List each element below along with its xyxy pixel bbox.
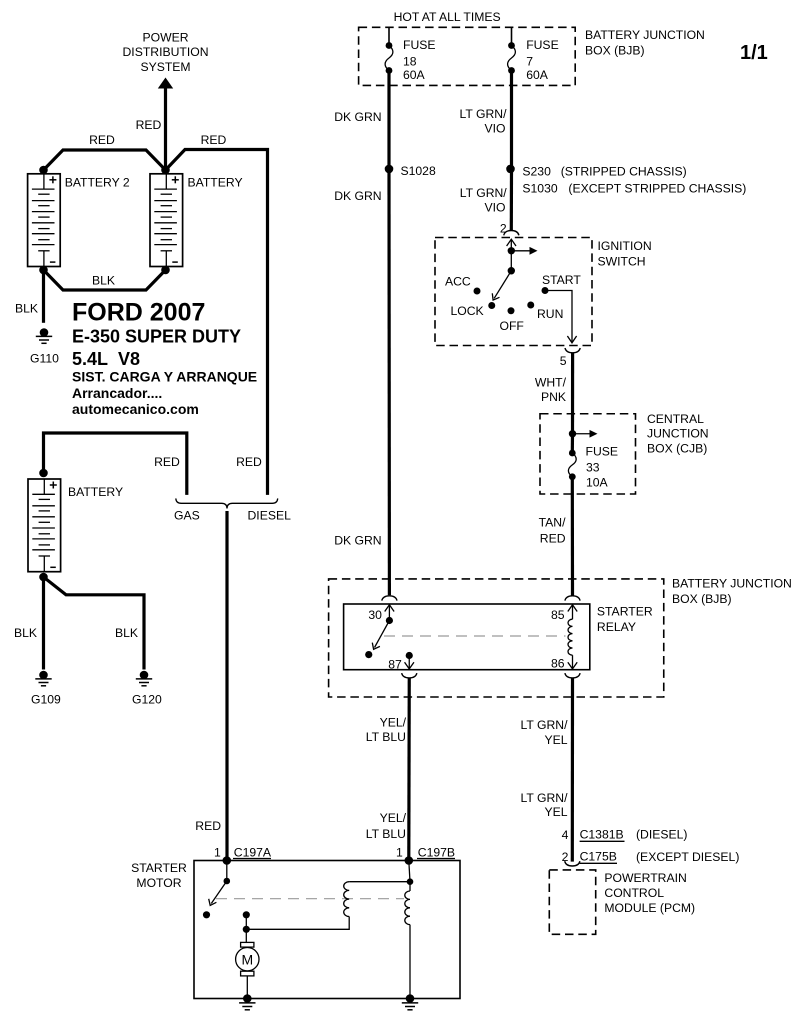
ignition input arrow pin 2 (507, 239, 516, 251)
battery B2 (28, 174, 61, 267)
battery B3 (28, 479, 61, 572)
svg-text:RED: RED (195, 819, 221, 833)
svg-text:BLK: BLK (115, 626, 138, 640)
connector C175B pin 2 (562, 849, 740, 864)
wire BLK battery 2 to ground G110 (42, 270, 45, 323)
svg-text:START: START (542, 273, 581, 287)
ignition wiper arm (492, 251, 515, 300)
svg-text:1: 1 (214, 846, 221, 860)
svg-text:SWITCH: SWITCH (598, 254, 646, 268)
svg-text:RED: RED (201, 133, 227, 147)
splice S230 / S1030 (506, 165, 515, 174)
svg-text:RED: RED (154, 455, 180, 469)
svg-text:LT GRN/: LT GRN/ (521, 791, 569, 805)
svg-text:VIO: VIO (485, 121, 506, 135)
svg-text:7: 7 (526, 54, 533, 68)
svg-text:RED: RED (89, 133, 115, 147)
relay pin 30 connector (382, 596, 397, 601)
starter internal dashed link (216, 898, 404, 900)
svg-text:LT GRN/: LT GRN/ (521, 718, 569, 732)
svg-text:CONTROL: CONTROL (604, 886, 664, 900)
svg-text:E-350 SUPER DUTY: E-350 SUPER DUTY (72, 326, 241, 346)
svg-text:DK GRN: DK GRN (334, 189, 381, 203)
svg-text:BOX (BJB): BOX (BJB) (585, 44, 645, 58)
svg-text:(EXCEPT STRIPPED CHASSIS): (EXCEPT STRIPPED CHASSIS) (568, 181, 746, 195)
svg-text:LT BLU: LT BLU (366, 827, 406, 841)
svg-text:JUNCTION: JUNCTION (647, 426, 709, 440)
starter solenoid contact to motor (243, 911, 250, 933)
relay internal dashed link (384, 635, 566, 637)
svg-text:GAS: GAS (174, 508, 200, 522)
pin 5 ignition switch (565, 348, 580, 353)
wire DK GRN S1028 to relay pin 30 (387, 169, 391, 595)
svg-text:ACC: ACC (445, 274, 471, 288)
svg-text:YEL/: YEL/ (380, 811, 407, 825)
svg-text:WHT/: WHT/ (535, 375, 567, 389)
svg-text:5: 5 (560, 354, 567, 368)
wire TAN/RED fuse 33 to relay pin 85 (571, 477, 574, 596)
starter motor box (194, 861, 460, 999)
svg-text:C197A: C197A (234, 846, 272, 860)
svg-text:BLK: BLK (15, 302, 38, 316)
ground starter case (402, 994, 418, 1010)
svg-text:30: 30 (368, 608, 382, 622)
svg-text:S1030: S1030 (522, 181, 557, 195)
svg-text:BOX (CJB): BOX (CJB) (647, 441, 707, 455)
svg-text:BATTERY JUNCTION: BATTERY JUNCTION (585, 28, 705, 42)
svg-text:FUSE: FUSE (403, 38, 436, 52)
svg-text:G110: G110 (30, 351, 59, 365)
contact ACC (474, 288, 481, 295)
connector C197B pin 1 (396, 846, 455, 865)
svg-text:1: 1 (396, 846, 403, 860)
svg-text:(EXCEPT DIESEL): (EXCEPT DIESEL) (636, 850, 739, 864)
wire DK GRN fuse 18 to S1028 (387, 71, 390, 169)
fuse F18 60A (385, 38, 435, 82)
wire RED brace to C197A (225, 511, 228, 861)
wire fuse 18 feed (388, 27, 390, 45)
svg-text:LT GRN/: LT GRN/ (460, 186, 508, 200)
svg-text:automecanico.com: automecanico.com (72, 401, 199, 417)
central junction box CJB (540, 414, 636, 494)
battery junction box BJB top (359, 27, 576, 85)
svg-text:LT GRN/: LT GRN/ (460, 107, 508, 121)
wire fuse 7 feed (511, 27, 513, 45)
wire RED battery 2 to junction (44, 150, 166, 170)
svg-text:DK GRN: DK GRN (334, 110, 381, 124)
wire BLK battery 3 to ground G109 (42, 577, 45, 670)
ignition feed arrow (to accessories) (511, 247, 537, 255)
svg-text:RED: RED (236, 455, 262, 469)
svg-text:IGNITION: IGNITION (598, 239, 652, 253)
contact START (542, 287, 549, 294)
PCM connector cup (565, 861, 580, 866)
svg-text:MODULE (PCM): MODULE (PCM) (604, 901, 695, 915)
CJB feed junction arrow (569, 430, 598, 438)
svg-text:POWERTRAIN: POWERTRAIN (604, 871, 686, 885)
starter motor M (236, 929, 259, 998)
svg-text:RED: RED (136, 118, 162, 132)
svg-text:1/1: 1/1 (740, 42, 768, 64)
svg-text:60A: 60A (526, 68, 549, 82)
ignition switch box (435, 238, 592, 346)
ground G120 (136, 671, 152, 686)
svg-text:LOCK: LOCK (451, 304, 484, 318)
svg-text:RUN: RUN (537, 307, 563, 321)
svg-text:G109: G109 (31, 693, 61, 707)
powertrain control module PCM (549, 870, 595, 934)
title FORD 2007 block (72, 299, 257, 418)
svg-text:BLK: BLK (92, 274, 115, 288)
battery B1 (150, 174, 183, 267)
wire RED junction to diesel feed (166, 150, 268, 495)
contact LOCK (488, 302, 495, 309)
svg-text:C197B: C197B (418, 846, 455, 860)
svg-text:10A: 10A (586, 475, 609, 489)
fuse F33 10A (568, 444, 618, 489)
svg-text:2: 2 (500, 222, 507, 236)
svg-text:4: 4 (562, 828, 569, 842)
power distribution system label (123, 31, 209, 75)
svg-text:FORD 2007: FORD 2007 (72, 299, 205, 327)
relay coil (568, 619, 573, 655)
connector C197A pin 1 (214, 846, 272, 865)
svg-text:BLK: BLK (14, 626, 37, 640)
ground G109 (35, 671, 51, 686)
brace GAS DIESEL (176, 498, 278, 508)
svg-text:POWER: POWER (142, 31, 188, 45)
svg-text:87: 87 (388, 658, 402, 672)
relay pin 85 connector (565, 596, 580, 601)
svg-text:CENTRAL: CENTRAL (647, 412, 704, 426)
svg-text:RELAY: RELAY (597, 620, 636, 634)
connector C1381B pin 4 (562, 827, 688, 842)
fuse F7 60A (508, 38, 559, 82)
wire YEL/LT BLU relay pin 87 to C197B (407, 678, 411, 861)
svg-text:MOTOR: MOTOR (136, 876, 181, 890)
wire BLK battery 2 to battery 1 (44, 270, 166, 290)
wire CJB junction to fuse 33 (571, 434, 574, 453)
svg-text:DISTRIBUTION: DISTRIBUTION (123, 45, 209, 59)
svg-text:BATTERY JUNCTION: BATTERY JUNCTION (672, 577, 792, 591)
contact RUN (527, 302, 534, 309)
svg-text:SIST. CARGA Y ARRANQUE: SIST. CARGA Y ARRANQUE (72, 369, 257, 385)
svg-text:5.4L V8: 5.4L V8 (72, 349, 140, 369)
wire LT GRN/YEL relay pin 86 to PCM (571, 678, 574, 862)
svg-text:33: 33 (586, 460, 600, 474)
wire LT GRN/VIO fuse 7 to S230 (510, 71, 513, 169)
battery junction box BJB lower (329, 579, 664, 697)
starter relay box (344, 604, 590, 670)
relay switch wiper (365, 617, 393, 658)
svg-text:DK GRN: DK GRN (334, 533, 381, 547)
svg-text:OFF: OFF (500, 319, 524, 333)
svg-text:S1028: S1028 (401, 164, 436, 178)
ground G110 (36, 328, 52, 343)
splice S1028 (385, 165, 394, 174)
svg-text:(DIESEL): (DIESEL) (636, 827, 687, 841)
wire START to pin 5 (545, 291, 577, 343)
svg-text:PNK: PNK (541, 390, 566, 404)
svg-text:C175B: C175B (580, 849, 617, 863)
svg-text:YEL/: YEL/ (380, 715, 407, 729)
svg-text:BATTERY: BATTERY (68, 485, 123, 499)
svg-text:M: M (241, 951, 253, 967)
node junction at battery positive (161, 166, 170, 175)
svg-text:FUSE: FUSE (526, 38, 559, 52)
svg-text:STARTER: STARTER (131, 861, 187, 875)
arrow to power distribution system (158, 78, 173, 171)
wire WHT/PNK pin 5 to CJB (571, 353, 574, 434)
svg-text:RED: RED (540, 531, 566, 545)
svg-text:FUSE: FUSE (586, 444, 619, 458)
svg-text:60A: 60A (403, 68, 426, 82)
svg-text:SYSTEM: SYSTEM (140, 60, 190, 74)
svg-text:BATTERY 2: BATTERY 2 (65, 175, 130, 189)
svg-text:BATTERY: BATTERY (188, 175, 243, 189)
svg-text:G120: G120 (132, 693, 162, 707)
svg-text:TAN/: TAN/ (539, 516, 566, 530)
svg-text:LT BLU: LT BLU (366, 730, 406, 744)
svg-text:VIO: VIO (485, 201, 506, 215)
wire LT GRN/VIO S230 to ignition switch (510, 169, 513, 230)
wire RED battery 3 to gas feed (44, 433, 187, 495)
contact OFF (508, 307, 515, 314)
ground starter motor (239, 994, 255, 1010)
svg-text:BOX (BJB): BOX (BJB) (672, 592, 732, 606)
starter solenoid switch (203, 861, 230, 919)
svg-text:18: 18 (403, 54, 417, 68)
svg-text:85: 85 (551, 608, 565, 622)
svg-text:HOT AT ALL TIMES: HOT AT ALL TIMES (394, 10, 501, 24)
hold-in coil (246, 882, 410, 930)
svg-text:(STRIPPED CHASSIS): (STRIPPED CHASSIS) (561, 164, 687, 178)
svg-text:Arrancador....: Arrancador.... (72, 385, 162, 401)
svg-text:STARTER: STARTER (597, 605, 653, 619)
wire BLK battery 3 to ground G120 (44, 577, 145, 670)
svg-text:DIESEL: DIESEL (248, 508, 292, 522)
svg-text:S230: S230 (522, 164, 551, 178)
pull-in coil (405, 861, 414, 999)
svg-text:C1381B: C1381B (580, 827, 624, 841)
svg-text:86: 86 (551, 657, 565, 671)
svg-text:YEL: YEL (544, 733, 567, 747)
svg-text:YEL: YEL (544, 805, 567, 819)
